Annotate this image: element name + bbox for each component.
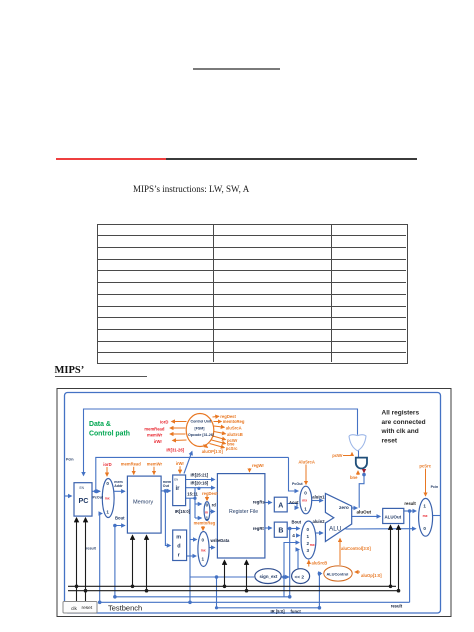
- svg-text:4: 4: [292, 533, 295, 538]
- svg-text:regRs: regRs: [253, 500, 266, 505]
- svg-text:pcSrc: pcSrc: [226, 446, 238, 451]
- svg-text:1: 1: [106, 509, 109, 514]
- svg-text:Out: Out: [163, 484, 170, 488]
- svg-text:rd: rd: [212, 503, 217, 508]
- svg-text:AluSrcA: AluSrcA: [298, 459, 315, 464]
- svg-text:Pcin: Pcin: [66, 457, 74, 461]
- svg-text:writeData: writeData: [210, 538, 231, 543]
- svg-text:ALUOut: ALUOut: [385, 514, 402, 519]
- svg-text:aluSrcB: aluSrcB: [227, 432, 243, 437]
- svg-text:0: 0: [423, 526, 426, 531]
- svg-text:memRead: memRead: [121, 462, 141, 467]
- svg-text:mx: mx: [310, 543, 315, 547]
- svg-text:PC: PC: [79, 496, 89, 505]
- svg-text:aluin1: aluin1: [312, 494, 325, 499]
- svg-text:regDest: regDest: [202, 491, 218, 496]
- svg-text:[FSM]: [FSM]: [195, 426, 205, 430]
- svg-text:zero: zero: [339, 505, 349, 511]
- svg-text:Testbench: Testbench: [108, 604, 142, 613]
- svg-text:1: 1: [202, 557, 205, 562]
- svg-text:are connected: are connected: [382, 419, 426, 426]
- svg-text:memWr: memWr: [147, 462, 163, 467]
- svg-text:clk: clk: [71, 606, 77, 612]
- svg-text:reset: reset: [382, 437, 398, 444]
- svg-text:Data &: Data &: [89, 421, 111, 428]
- svg-text:EN: EN: [174, 478, 178, 482]
- svg-text:result: result: [391, 604, 403, 609]
- svg-text:Pcin: Pcin: [431, 485, 439, 489]
- svg-text:iorD: iorD: [103, 462, 111, 467]
- svg-text:mx: mx: [423, 514, 428, 518]
- svg-text:ALU: ALU: [329, 526, 342, 533]
- svg-text:Aout: Aout: [289, 500, 299, 505]
- svg-text:Control Unit: Control Unit: [191, 420, 213, 424]
- svg-text:funct: funct: [291, 609, 302, 614]
- svg-text:memRead: memRead: [144, 426, 164, 431]
- svg-text:result: result: [404, 501, 416, 506]
- svg-text:Control path: Control path: [89, 431, 130, 438]
- svg-text:Bout: Bout: [115, 515, 125, 520]
- svg-text:irWr: irWr: [176, 461, 185, 466]
- svg-text:Addr: Addr: [114, 484, 123, 488]
- svg-text:iorD: iorD: [160, 420, 168, 425]
- svg-text:m: m: [176, 535, 181, 541]
- svg-text:0: 0: [307, 527, 310, 532]
- svg-text:memtoReg: memtoReg: [194, 521, 216, 526]
- svg-text:Bout: Bout: [292, 520, 302, 525]
- svg-text:aluOP[1:0]: aluOP[1:0]: [202, 449, 224, 454]
- svg-text:regWr: regWr: [252, 463, 264, 468]
- svg-text:bne: bne: [350, 475, 358, 480]
- svg-text:aluOp[1:0]: aluOp[1:0]: [361, 573, 382, 578]
- svg-text:aluin2: aluin2: [313, 519, 326, 524]
- svg-text:IR[20:16]: IR[20:16]: [191, 481, 209, 486]
- svg-text:aluControl[3:0]: aluControl[3:0]: [341, 546, 371, 551]
- svg-text:ir: ir: [176, 486, 181, 492]
- svg-text:0: 0: [206, 503, 209, 508]
- svg-text:0: 0: [304, 490, 307, 495]
- svg-text:A: A: [278, 503, 283, 510]
- svg-text:reset: reset: [82, 605, 93, 611]
- svg-text:memWr: memWr: [147, 433, 163, 438]
- svg-text:with clk and: with clk and: [381, 428, 419, 435]
- svg-text:All registers: All registers: [382, 410, 420, 417]
- svg-text:memtoReg: memtoReg: [223, 419, 245, 424]
- svg-text:1: 1: [307, 534, 310, 539]
- svg-text:IR[15:0]: IR[15:0]: [175, 509, 191, 514]
- svg-text:irWr: irWr: [154, 439, 163, 444]
- svg-text:mx: mx: [302, 499, 307, 503]
- svg-text:ALUControl: ALUControl: [327, 571, 349, 576]
- svg-text:3: 3: [307, 548, 310, 553]
- svg-text:IR[31-26]: IR[31-26]: [166, 447, 184, 452]
- svg-text:aluSrcB: aluSrcB: [312, 561, 328, 566]
- svg-text:pcSrc: pcSrc: [419, 464, 431, 469]
- svg-text:EN: EN: [80, 486, 85, 490]
- svg-text:B: B: [278, 528, 283, 535]
- svg-text:mx: mx: [105, 497, 110, 501]
- svg-text:0: 0: [202, 538, 205, 543]
- svg-text:aluOut: aluOut: [357, 510, 372, 515]
- svg-text:Opcode [31-26]: Opcode [31-26]: [188, 433, 214, 437]
- svg-text:m: m: [205, 510, 208, 514]
- svg-text:1: 1: [423, 503, 426, 508]
- svg-text:pcWr: pcWr: [332, 453, 343, 458]
- svg-text:<< 2: << 2: [295, 574, 305, 580]
- svg-text:Memory: Memory: [133, 500, 153, 506]
- svg-text:regRt: regRt: [253, 526, 265, 531]
- svg-text:PcOut: PcOut: [93, 495, 104, 499]
- svg-text:1: 1: [304, 507, 307, 512]
- svg-text:d: d: [177, 544, 180, 550]
- svg-text:aluSrcA: aluSrcA: [226, 425, 242, 430]
- svg-text:sign_ext: sign_ext: [260, 574, 278, 579]
- svg-text:mx: mx: [201, 549, 206, 553]
- svg-text:IR[25:21]: IR[25:21]: [191, 472, 209, 477]
- svg-text:IR [5:0]: IR [5:0]: [271, 609, 286, 614]
- svg-text:0: 0: [106, 481, 109, 486]
- svg-text:15:11: 15:11: [187, 491, 198, 496]
- svg-text:Register File: Register File: [229, 509, 258, 515]
- svg-text:PcOut: PcOut: [292, 482, 303, 486]
- svg-text:result: result: [86, 547, 97, 551]
